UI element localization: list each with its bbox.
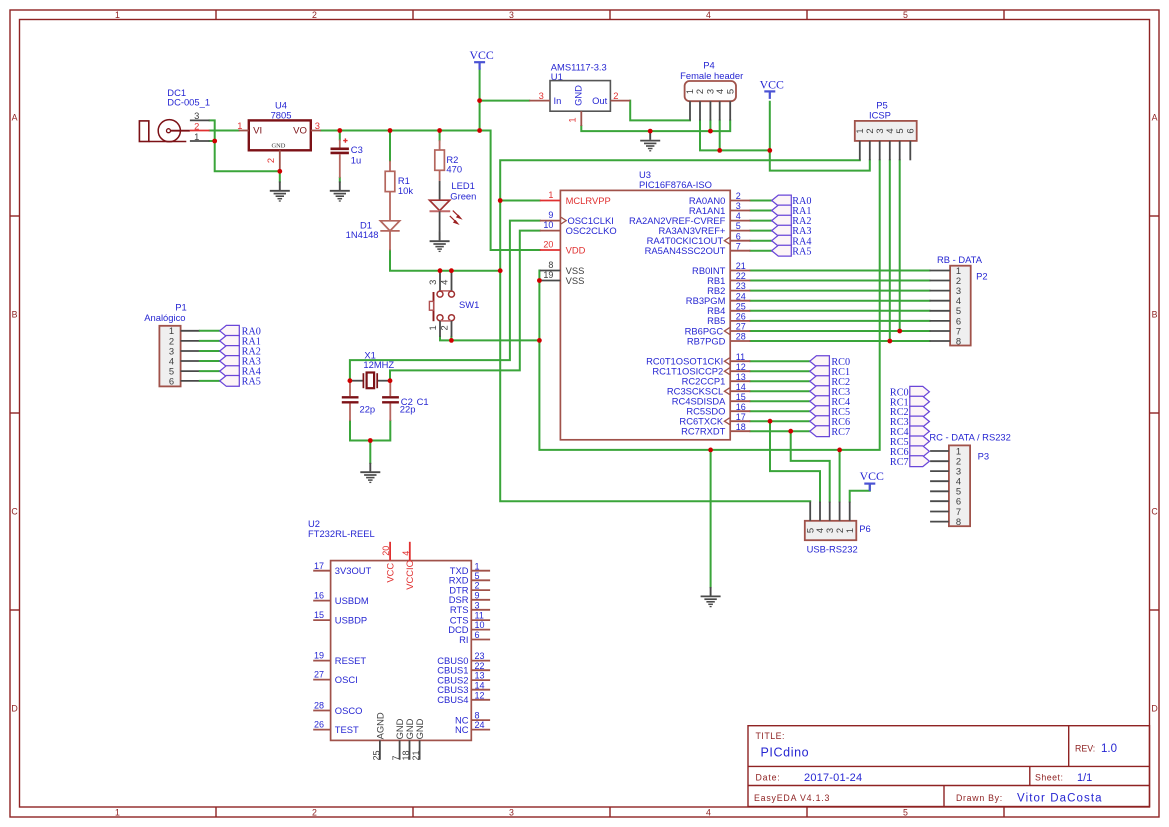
svg-text:9: 9 [548, 210, 553, 220]
wire U3 RB6 to P2 pin7 [750, 330, 929, 332]
crystal X1 12MHZ [350, 349, 395, 388]
P1 pin 1 [181, 330, 200, 332]
U3 pin 14 RC3SCKSCL [667, 382, 750, 397]
U4 pin 2 [279, 150, 281, 171]
U3 pin 20 VDD [540, 239, 586, 255]
ground under U1/P4 rail [640, 131, 660, 151]
svg-text:3: 3 [475, 600, 480, 610]
svg-text:C: C [11, 507, 18, 517]
svg-text:4: 4 [439, 280, 450, 285]
P2 pin 5 [930, 310, 951, 312]
svg-text:2: 2 [694, 89, 705, 94]
svg-text:19: 19 [314, 651, 324, 661]
svg-text:1: 1 [237, 120, 242, 131]
svg-text:6: 6 [169, 375, 174, 386]
U2 pin 17 3V3OUT [313, 561, 371, 576]
svg-text:B: B [1152, 310, 1158, 320]
U2 pin 11 CTS [450, 611, 490, 626]
svg-text:7: 7 [391, 755, 401, 760]
svg-text:14: 14 [475, 680, 485, 690]
svg-text:2017-01-24: 2017-01-24 [804, 772, 862, 784]
svg-text:16: 16 [314, 591, 324, 601]
P2 pin 8 [930, 340, 951, 342]
capacitor C1 22p [382, 381, 428, 421]
svg-text:15: 15 [314, 610, 324, 620]
wire OSC1 to crystal left [350, 221, 540, 381]
U3 pin 3 RA1AN1 [689, 201, 750, 216]
wire U1 In [480, 100, 530, 102]
svg-text:3: 3 [427, 280, 438, 285]
svg-text:Out: Out [592, 95, 608, 106]
U2 pin 1 TXD [450, 561, 490, 576]
wire RC6 to P6 pin4 [770, 421, 820, 501]
U3 pin 17 RC6TXCK [679, 412, 750, 427]
svg-text:22: 22 [475, 661, 485, 671]
VCC symbol top-left [469, 48, 493, 69]
U3 pin 6 RA4T0CKIC1OUT [647, 231, 751, 246]
net flag RA1 at U3 [772, 205, 792, 216]
U3 pin 8 VSS [540, 260, 585, 276]
svg-text:SW1: SW1 [459, 299, 479, 310]
wire U3 RB7 to P2 pin8 [750, 340, 929, 342]
net flag RC3 at P3 [910, 416, 930, 427]
P3 pin 8 [930, 521, 949, 523]
svg-text:RI: RI [459, 634, 468, 645]
LED1 emission arrows [450, 211, 461, 224]
net flag RC7 at U3 [810, 426, 830, 437]
svg-text:RC7: RC7 [831, 427, 850, 438]
svg-text:3: 3 [736, 201, 741, 211]
svg-text:Drawn By:: Drawn By: [956, 793, 1003, 803]
ground under C3 [330, 181, 350, 201]
svg-text:CBUS4: CBUS4 [437, 694, 468, 705]
svg-text:25: 25 [371, 750, 381, 760]
svg-text:LED1: LED1 [451, 180, 474, 191]
P1 pin 2 [181, 340, 200, 342]
svg-text:B: B [12, 310, 18, 320]
net flag RA1 at P1 [220, 336, 240, 347]
wire U3 RC2 pin to flag [750, 380, 809, 382]
wire P4 pin2/pin4 VCC rail [700, 121, 770, 151]
U2 pin 25 AGND [371, 712, 385, 760]
connector DC1 DC-005_1 power jack [139, 87, 210, 142]
wire DC1 pin1 to junction [210, 140, 215, 142]
DC1 pin 3 [190, 119, 210, 121]
regulator U1 AMS1117-3.3 [529, 62, 630, 126]
resistor R1 10k [385, 161, 413, 221]
svg-text:10: 10 [475, 620, 485, 630]
U3 pin 7 RA5AN4SSC2OUT [645, 241, 751, 256]
net flag RC1 at U3 [810, 366, 830, 377]
net flag RA2 at U3 [772, 215, 792, 226]
svg-text:2: 2 [312, 808, 317, 818]
svg-text:RA5: RA5 [792, 246, 811, 257]
svg-text:FT232RL-REEL: FT232RL-REEL [308, 528, 375, 539]
svg-text:1: 1 [475, 561, 480, 571]
svg-text:5: 5 [903, 808, 908, 818]
U3 pin 2 RA0AN0 [689, 191, 750, 206]
P3 pin 6 [930, 500, 949, 502]
svg-text:9: 9 [475, 590, 480, 600]
wire crystal caps bottom rail [350, 421, 390, 441]
svg-text:2: 2 [265, 158, 276, 163]
svg-text:23: 23 [475, 651, 485, 661]
svg-text:24: 24 [475, 720, 485, 730]
P5 pin 1 [859, 141, 861, 160]
wire U3 RB2 to P2 pin3 [750, 290, 929, 292]
wire U3 RC0 pin to flag [750, 360, 809, 362]
svg-text:21: 21 [736, 261, 746, 271]
P1 pin 5 [181, 370, 200, 372]
wire P1 pin 6 to RA5 flag [200, 380, 220, 382]
svg-text:OSC2CLKO: OSC2CLKO [566, 225, 617, 236]
svg-text:MCLRVPP: MCLRVPP [566, 195, 611, 206]
svg-text:8: 8 [548, 260, 553, 270]
DC1 pin 2 [190, 130, 210, 132]
svg-text:GND: GND [414, 718, 425, 739]
svg-text:1: 1 [566, 117, 577, 122]
U3 pin 5 RA3AN3VREF+ [658, 221, 750, 236]
P1 pin 6 [181, 380, 200, 382]
wire U3 RA3 pin to flag [750, 230, 771, 232]
P5 pin 3 [879, 141, 881, 160]
wire U1 Out to P4 pin1 [630, 101, 690, 121]
U2 pin 27 OSCI [313, 670, 358, 685]
P2 pin 2 [930, 280, 951, 282]
wire U3 RC3 pin to flag [750, 390, 809, 392]
svg-text:28: 28 [736, 332, 746, 342]
resistor R2 470 [435, 140, 462, 181]
connector P4 Female header [680, 60, 743, 121]
net flag RC6 at U3 [810, 416, 830, 427]
U3 pin 1 MCLRVPP [540, 190, 611, 206]
svg-text:VCC: VCC [469, 48, 493, 62]
svg-text:USBDP: USBDP [335, 614, 367, 625]
svg-text:1/1: 1/1 [1077, 772, 1092, 784]
svg-text:1: 1 [115, 808, 120, 818]
svg-text:PIC16F876A-ISO: PIC16F876A-ISO [639, 179, 712, 190]
svg-text:25: 25 [736, 301, 746, 311]
U3 pin 21 RB0INT [692, 261, 750, 276]
P4 pin 5 [729, 101, 731, 120]
svg-text:1N4148: 1N4148 [346, 229, 379, 240]
P4 pin 1 [689, 101, 691, 120]
ground under LED1 [430, 232, 450, 252]
svg-text:NC: NC [455, 724, 469, 735]
P6 pin 1 [849, 502, 851, 521]
connector P3 RC - DATA / RS232 [929, 432, 1010, 527]
wire U3 RA0 pin to flag [750, 200, 771, 202]
U3 pin 19 VSS [540, 270, 585, 286]
svg-text:D: D [1151, 704, 1157, 714]
diode D1 1N4148 [346, 219, 400, 250]
P3 pin 1 [930, 450, 949, 452]
U2 pin 24 NC [455, 720, 490, 735]
U3 pin 28 RB7PGD [687, 332, 751, 347]
svg-text:1: 1 [427, 325, 438, 330]
svg-text:4: 4 [714, 89, 725, 94]
IC U2 FT232RL-REEL [308, 518, 471, 740]
U3 pin 13 RC2CCP1 [682, 372, 751, 387]
svg-text:22p: 22p [360, 403, 376, 414]
U2 pin 15 USBDP [313, 610, 367, 625]
U2 pin 14 CBUS3 [437, 680, 490, 695]
svg-text:TITLE:: TITLE: [756, 731, 785, 741]
wire U3 RB0 to P2 pin1 [750, 270, 929, 272]
U3 pin 16 RC5SDO [686, 402, 750, 417]
P3 pin 7 [930, 511, 949, 513]
svg-text:4: 4 [706, 808, 711, 818]
svg-text:1u: 1u [351, 155, 361, 166]
wire C3 top [339, 131, 341, 140]
svg-text:20: 20 [543, 239, 553, 249]
wire P4 pin3 drop to gnd rail [709, 121, 711, 132]
U3 pin 12 RC1T1OSICCP2 [652, 362, 750, 377]
wire U3 RC4 pin to flag [750, 400, 809, 402]
svg-text:27: 27 [314, 670, 324, 680]
net flag RC4 at U3 [810, 396, 830, 407]
svg-text:VCC: VCC [384, 563, 395, 583]
U1 pin 2 [610, 100, 630, 102]
wire U3 RA2 pin to flag [750, 220, 771, 222]
svg-text:2: 2 [194, 120, 199, 131]
svg-text:5: 5 [475, 571, 480, 581]
net flag RA4 at P1 [220, 366, 240, 377]
wire U3 RC6 pin to flag [750, 420, 809, 422]
svg-text:5: 5 [736, 221, 741, 231]
svg-text:17: 17 [314, 561, 324, 571]
svg-text:C1: C1 [417, 396, 429, 407]
wire R1 top [389, 131, 391, 161]
svg-text:18: 18 [736, 422, 746, 432]
svg-text:D: D [11, 704, 17, 714]
svg-text:RB - DATA: RB - DATA [937, 254, 983, 265]
wire R2 top [439, 131, 441, 141]
net flag RA5 at P1 [220, 376, 240, 387]
wire D1 bottom to MCLR rail [390, 250, 500, 270]
P6 pin 3 [829, 502, 831, 521]
svg-text:In: In [554, 95, 562, 106]
svg-text:REV:: REV: [1075, 744, 1095, 754]
wire P5 pin5 to RB6 row [899, 160, 901, 331]
svg-text:2: 2 [613, 90, 618, 101]
svg-text:VSS: VSS [566, 275, 585, 286]
svg-text:VCC: VCC [860, 469, 884, 483]
U3 pin 26 RB5 [707, 312, 750, 327]
svg-text:20: 20 [381, 546, 391, 556]
svg-text:VI: VI [253, 126, 262, 137]
wire crystal rail to ground [369, 441, 371, 464]
svg-text:2: 2 [312, 10, 317, 20]
U2 pin 16 USBDM [313, 591, 369, 606]
net flag RA0 at P1 [220, 325, 240, 336]
wire U3 RC1 pin to flag [750, 370, 809, 372]
svg-text:A: A [1152, 113, 1158, 123]
svg-text:Analógico: Analógico [144, 312, 185, 323]
svg-text:18: 18 [401, 750, 411, 760]
svg-text:TEST: TEST [335, 724, 359, 735]
svg-text:19: 19 [543, 270, 553, 280]
svg-text:GND: GND [573, 85, 584, 106]
net flag RA0 at U3 [772, 195, 792, 206]
svg-text:Sheet:: Sheet: [1035, 773, 1063, 783]
svg-text:2: 2 [439, 325, 450, 330]
svg-text:8: 8 [956, 335, 961, 346]
svg-text:RA5AN4SSC2OUT: RA5AN4SSC2OUT [645, 245, 726, 256]
svg-text:1: 1 [548, 190, 553, 200]
net flag RA2 at P1 [220, 346, 240, 357]
svg-text:22p: 22p [400, 403, 416, 414]
U3 pin 15 RC4SDISDA [672, 392, 751, 407]
svg-text:3: 3 [315, 120, 320, 131]
connector P6 USB-RS232 [804, 502, 870, 555]
P6 pin 2 [839, 502, 841, 521]
P5 pin 5 [899, 141, 901, 160]
P3 pin 4 [930, 480, 949, 482]
svg-text:7: 7 [736, 241, 741, 251]
svg-text:12MHZ: 12MHZ [363, 359, 394, 370]
svg-text:470: 470 [446, 164, 462, 175]
wire P1 pin 2 to RA1 flag [200, 340, 220, 342]
wire P4 pin4 drop [719, 121, 721, 151]
svg-text:1.0: 1.0 [1101, 743, 1117, 755]
U2 pin 23 CBUS0 [437, 651, 490, 666]
svg-text:11: 11 [736, 352, 745, 362]
wire U3 RA1 pin to flag [750, 210, 771, 212]
U2 pin 5 RXD [449, 571, 490, 586]
svg-text:3: 3 [539, 90, 544, 101]
svg-text:11: 11 [475, 611, 484, 621]
wire U3 RC7 pin to flag [750, 430, 809, 432]
U2 pin 4 VCCIO [401, 542, 415, 590]
wire U3 RB3 to P2 pin4 [750, 300, 929, 302]
svg-text:7805: 7805 [271, 110, 292, 121]
ground big right (VSS net) [701, 587, 721, 607]
ground under crystal caps [360, 463, 380, 483]
svg-text:VDD: VDD [566, 244, 586, 255]
wire U3 MCLR pin1 [500, 200, 540, 202]
wire VSS pin19 stub join [538, 280, 540, 282]
wire SW1 pin1 to ground column [440, 337, 539, 341]
P4 pin 4 [719, 101, 721, 120]
svg-text:OSCO: OSCO [335, 705, 363, 716]
net flag RC0 at U3 [810, 356, 830, 367]
U3 pin 27 RB6PGC [685, 322, 751, 337]
svg-text:1: 1 [115, 10, 120, 20]
svg-text:RC7RXDT: RC7RXDT [681, 426, 726, 437]
wire P6 pin1 to VCC [850, 484, 870, 502]
svg-text:RB7PGD: RB7PGD [687, 335, 726, 346]
svg-text:8: 8 [956, 516, 961, 527]
P5 pin 2 [869, 141, 871, 160]
svg-text:Female header: Female header [680, 70, 743, 81]
P3 pin 5 [930, 490, 949, 492]
svg-text:VCC: VCC [760, 78, 784, 92]
svg-text:USB-RS232: USB-RS232 [807, 544, 858, 555]
svg-text:USBDM: USBDM [335, 595, 369, 606]
svg-text:21: 21 [411, 750, 421, 760]
wire VCC symbol stem to U1 In junction [479, 69, 481, 130]
net flag RC3 at U3 [810, 386, 830, 397]
U3 pin 9 OSC1CLKI [540, 210, 614, 226]
P2 pin 3 [930, 290, 951, 292]
P4 pin 3 [709, 101, 711, 120]
svg-text:RA5: RA5 [242, 377, 261, 388]
svg-text:2: 2 [475, 581, 480, 591]
wire OSC2 to crystal right [390, 231, 540, 381]
P2 pin 1 [930, 270, 951, 272]
P2 pin 4 [930, 300, 951, 302]
svg-text:P4: P4 [703, 60, 714, 71]
wire P4 gnd rail to ground symbol [649, 130, 651, 133]
U4 pin 3 [311, 130, 321, 132]
U2 pin 13 CBUS2 [437, 671, 490, 686]
svg-text:VCCIO: VCCIO [404, 560, 415, 590]
svg-text:P3: P3 [978, 451, 989, 462]
svg-text:3: 3 [509, 808, 514, 818]
svg-text:C3: C3 [351, 144, 363, 155]
svg-text:4: 4 [736, 211, 741, 221]
U2 pin 22 CBUS1 [437, 661, 490, 676]
svg-text:6: 6 [475, 630, 480, 640]
P3 pin 3 [930, 470, 949, 472]
svg-text:ICSP: ICSP [869, 110, 891, 121]
P1 pin 3 [181, 350, 200, 352]
net flag RC2 at U3 [810, 376, 830, 387]
DC1 pin 1 [190, 140, 210, 142]
svg-text:P2: P2 [976, 270, 987, 281]
wire U1 GND pin to P4 gnd rail [581, 121, 730, 132]
regulator U4 7805 [237, 100, 321, 172]
U2 pin 19 RESET [313, 651, 366, 666]
svg-text:17: 17 [736, 412, 746, 422]
P6 pin 5 [809, 502, 811, 521]
svg-text:DC-005_1: DC-005_1 [167, 97, 210, 108]
IC U3 PIC16F876A-ISO [560, 169, 730, 440]
svg-text:PICdino: PICdino [761, 746, 810, 760]
U2 pin 26 TEST [313, 720, 359, 735]
svg-text:5: 5 [894, 128, 905, 133]
svg-text:8: 8 [475, 711, 480, 721]
svg-text:EasyEDA V4.1.3: EasyEDA V4.1.3 [754, 793, 830, 803]
wire MCLR net: P5 pin1 / U3 pin1 / P6 pin5 [500, 160, 860, 501]
svg-text:12: 12 [736, 362, 746, 372]
wire VCC rail from U4 VO to VDD corner [321, 131, 540, 251]
svg-text:Green: Green [450, 191, 476, 202]
capacitor C2 22p [342, 381, 375, 421]
wire RC7 to P6 pin3 [791, 431, 830, 501]
svg-text:RESET: RESET [335, 655, 367, 666]
svg-text:12: 12 [475, 690, 485, 700]
wire ground rail to U4 pin2 [215, 141, 280, 171]
wire U3 RA5 pin to flag [750, 250, 771, 252]
net flag RC1 at P3 [910, 396, 930, 407]
svg-text:22: 22 [736, 271, 746, 281]
VCC symbol at P6 [860, 469, 884, 491]
connector P1 Analogico [144, 302, 261, 388]
svg-text:13: 13 [475, 671, 485, 681]
svg-text:C: C [1151, 507, 1158, 517]
wire P1 pin 1 to RA0 flag [200, 330, 220, 332]
capacitor C3 1u [331, 138, 363, 177]
U3 pin 23 RB2 [707, 281, 750, 296]
net flag RC5 at P3 [910, 436, 930, 447]
U3 pin 10 OSC2CLKO [540, 220, 617, 236]
svg-text:3: 3 [509, 10, 514, 20]
U2 pin 20 VCC [381, 542, 395, 583]
P1 pin 4 [181, 360, 200, 362]
U2 pin 6 RI [459, 630, 490, 645]
